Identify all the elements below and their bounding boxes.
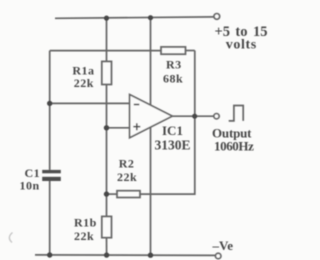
svg-text:–Ve: –Ve [212, 238, 234, 253]
wire: 0V bottom rail [35, 254, 216, 257]
svg-text:22k: 22k [74, 229, 94, 243]
junction: non-inverting node [104, 125, 109, 130]
wire: R3 right vertical down through output node to R2 right [140, 51, 195, 195]
svg-text:68k: 68k [163, 71, 183, 85]
svg-text:10n: 10n [20, 178, 40, 192]
svg-text:1060Hz: 1060Hz [214, 138, 254, 153]
wire: left vertical (feedback node down to C1) [49, 51, 51, 170]
resistor R1a [102, 61, 112, 84]
svg-text:volts: volts [226, 38, 257, 53]
wire: feedback top horizontal (inverting node to R3 left) [50, 50, 161, 52]
wire: bias divider line (R1a bottom through +input and R2 node to R1b) [106, 85, 108, 217]
wire: op-amp V+ pin (x=150.5 from rail to triangle) [150, 18, 152, 106]
wire: inverting input (node to op-amp minus) [50, 102, 130, 104]
wire: R1b bottom lead to 0V rail [106, 238, 108, 255]
junction: rail / V+ pin [148, 15, 153, 20]
junction: 0V rail / R1b [104, 252, 109, 257]
wire: op-amp V- pin down to 0V rail [150, 127, 152, 255]
junction: 0V rail / V- pin [148, 253, 153, 258]
symbol: op-amp plus input sign [133, 123, 140, 130]
junction: 0V rail / C1 [47, 252, 52, 257]
svg-text:IC1: IC1 [162, 123, 183, 138]
wire: R2 left lead to divider node [107, 193, 118, 195]
wire: R3 right lead [186, 50, 195, 52]
wire: R1a top lead from rail [106, 18, 108, 61]
terminal: -Ve [215, 253, 221, 259]
wire: output from op-amp to terminal [172, 115, 214, 117]
junction: rail / R1a [104, 16, 109, 21]
terminal: output [214, 114, 219, 119]
svg-text:22k: 22k [117, 170, 137, 184]
svg-text:R1b: R1b [74, 216, 97, 230]
resistor R1b [102, 216, 112, 237]
symbol: output square wave [229, 106, 244, 121]
wire: +V top rail [55, 17, 214, 18]
terminal: +V supply [214, 14, 220, 20]
op-amp IC1 triangle [130, 95, 173, 138]
wire: non-inverting input (divider node to op-amp plus) [107, 127, 130, 129]
symbol: op-amp minus input sign [134, 104, 140, 106]
svg-text:R2: R2 [119, 156, 135, 170]
svg-text:22k: 22k [74, 76, 94, 90]
resistor R2 [117, 191, 140, 198]
capacitor C1 [42, 170, 61, 181]
scan artifact: faint parenthesis mark bottom-left [9, 233, 12, 243]
svg-text:3130E: 3130E [155, 138, 191, 153]
svg-text:R3: R3 [166, 58, 182, 72]
junction: inverting node [47, 101, 52, 106]
junction: output node [192, 114, 197, 119]
resistor R3 [161, 47, 186, 54]
wire: C1 bottom lead to 0V rail [49, 181, 51, 255]
junction: R2 left / divider [104, 191, 109, 196]
